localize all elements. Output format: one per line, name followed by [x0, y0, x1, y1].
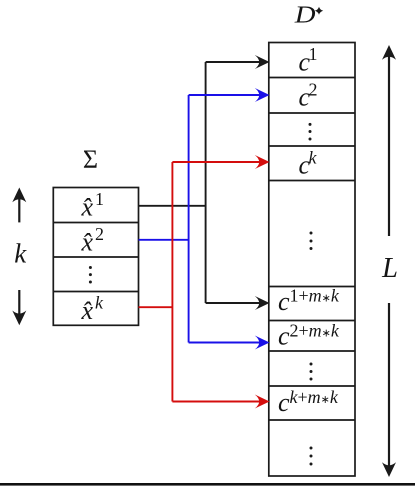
- svg-text:k: k: [95, 293, 104, 313]
- svg-text:2: 2: [309, 79, 318, 99]
- svg-text:c: c: [278, 322, 290, 351]
- svg-text:1: 1: [95, 189, 104, 209]
- svg-text:x̂: x̂: [81, 296, 94, 325]
- svg-text:2: 2: [95, 224, 104, 244]
- svg-text:1+m∗k: 1+m∗k: [290, 285, 340, 305]
- svg-text:k+m∗k: k+m∗k: [290, 387, 339, 407]
- svg-text:Σ: Σ: [83, 145, 98, 174]
- svg-text:2+m∗k: 2+m∗k: [290, 321, 340, 341]
- svg-text:c: c: [278, 287, 290, 316]
- svg-text:c: c: [278, 388, 290, 417]
- svg-text:1: 1: [309, 44, 318, 64]
- svg-text:x̂: x̂: [81, 193, 94, 222]
- svg-text:k: k: [309, 147, 318, 167]
- svg-text:k: k: [14, 238, 27, 268]
- svg-text:L: L: [381, 253, 398, 284]
- svg-text:x̂: x̂: [81, 227, 94, 256]
- svg-text:D: D: [294, 1, 316, 28]
